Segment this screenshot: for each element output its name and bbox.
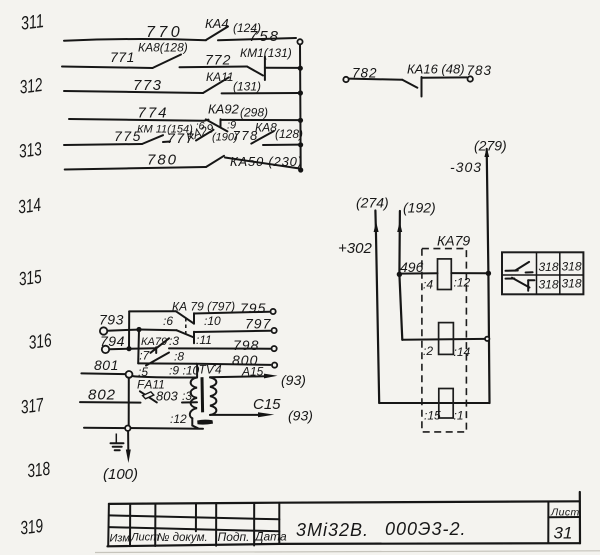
node 316 [27,330,53,354]
wire left vertical down [128,378,130,426]
junction row5 [298,142,303,147]
svg-text:(128): (128) [275,127,303,141]
ground [111,434,124,451]
svg-text::3: :3 [182,389,192,403]
svg-text:316: 316 [27,330,53,354]
svg-text:3Мi32В.: 3Мi32В. [296,520,369,540]
wire bus vertical [299,44,302,170]
wire 192 down [397,211,402,340]
wire bottom net [84,428,203,429]
svg-text:№ докум.: № докум. [157,532,208,544]
contact KA79 :6/:10 [129,311,221,328]
wire 758 [218,28,296,45]
wire 771 [62,49,153,68]
svg-text:А15: А15 [241,365,264,379]
wire 777 [163,130,195,146]
wire 801 [81,357,125,374]
contact KA79 :7/:8 [129,338,184,363]
ink blob near :12 [197,420,213,425]
wire A15 [210,365,306,389]
wire 770 [64,24,206,41]
wire 772 [180,52,248,68]
svg-text::14: :14 [454,345,471,359]
svg-text:773: 773 [133,77,163,94]
wire 773 [64,77,203,94]
transformer primary winding [190,378,197,419]
svg-text:313: 313 [18,139,44,163]
junction -303 top coil [486,271,491,276]
wire 795 [194,300,270,316]
contact KA50 [206,154,303,169]
transformer secondary winding [210,377,216,415]
svg-text:(93): (93) [281,372,306,388]
svg-text:311: 311 [20,11,45,35]
contact KA92 [206,102,299,132]
svg-text::10: :10 [204,314,221,328]
svg-text:319: 319 [19,516,45,540]
wire coil1 to -303 [451,272,486,274]
svg-text:315: 315 [17,267,43,291]
svg-text:(93): (93) [288,408,313,424]
wire C15 [210,396,313,424]
table NO contact symbol [506,262,533,273]
contact KA16 [402,62,464,97]
svg-text:Изм.: Изм. [110,533,133,545]
node 313 [18,139,44,163]
wire 782 [349,79,403,80]
contact KA11 [203,70,261,94]
node 797 terminal [272,328,277,333]
svg-text::15: :15 [424,409,441,423]
wire coil3 row [379,402,489,404]
wire 800 [197,352,271,368]
wire vertical 794 feed [128,311,130,348]
wire 775 [64,128,142,145]
svg-text:000Э3-2.: 000Э3-2. [385,519,467,539]
svg-text:(192): (192) [403,200,436,216]
node 798 terminal [272,346,277,351]
junction 794 [126,346,131,351]
svg-text:КА 79 (797): КА 79 (797) [172,300,235,314]
svg-text::8: :8 [174,350,184,364]
wire +302 [338,211,379,404]
node 312 [18,75,44,99]
svg-text:496: 496 [400,259,424,275]
junction 793 [136,327,141,332]
svg-text:КА79: КА79 [437,233,470,249]
svg-text:КА8(128): КА8(128) [138,41,188,55]
title block labels [110,530,287,545]
wire coil2 row [402,338,485,341]
transformer core [201,377,205,412]
svg-text::4: :4 [423,278,433,292]
table values 318 [539,260,582,292]
wire 801 to primary [132,376,197,378]
wire 797 [194,316,272,333]
node 795 terminal [271,309,276,314]
contact KA79 :3/:11 [139,330,212,349]
junction row4 [298,118,303,123]
wire 774 [69,105,209,122]
svg-text::12: :12 [454,276,471,290]
wire 802 [80,387,141,404]
svg-text::11: :11 [196,333,212,347]
svg-text:318: 318 [539,278,559,292]
svg-text:801: 801 [94,357,119,373]
svg-text:(279): (279) [474,138,507,154]
svg-text:+302: +302 [338,240,372,257]
contact KA29 [184,120,238,145]
transformer primary top lead [196,365,198,377]
title block rows [109,515,279,531]
node 793 terminal [99,312,124,335]
wire 803 [156,389,197,404]
transformer primary bottom lead :12 [170,412,198,428]
contact table frame [502,252,583,294]
wire 798 [169,337,270,353]
svg-text:С15: С15 [253,396,281,413]
svg-text::7: :7 [139,349,150,363]
transformer TV4 label [199,363,222,377]
wire 794 [109,348,128,350]
node 800 terminal [272,363,277,368]
wire vertical 793 feed [137,330,140,364]
label KA79(797) [172,300,235,314]
svg-text:795: 795 [240,300,266,316]
coil KA79 winding 2 [423,323,471,359]
svg-text:ТѴ4: ТѴ4 [199,363,222,377]
svg-text:КА11: КА11 [206,70,234,84]
svg-text:318: 318 [539,260,559,274]
svg-text:КА92: КА92 [208,102,240,117]
svg-text:Лист: Лист [550,507,580,519]
svg-text:770: 770 [146,24,183,41]
svg-text:793: 793 [99,312,124,328]
wire 778 [233,128,259,143]
wire row5 to bus [263,144,299,146]
svg-text::9: :9 [169,364,179,378]
svg-text:314: 314 [17,195,42,219]
svg-text::3: :3 [169,334,179,348]
title block columns [130,503,254,546]
svg-text:771: 771 [110,49,135,65]
svg-text:31: 31 [554,524,573,543]
node 314 [17,195,42,219]
node (279) [474,138,507,154]
breaker FA11 [137,378,165,403]
svg-text::6: :6 [163,314,173,328]
wire page bottom edge [95,551,600,553]
svg-text:318: 318 [26,459,52,483]
node 801 junction [126,371,133,378]
node 794 terminal [100,333,125,353]
svg-text:318: 318 [562,260,582,274]
svg-text:КА16 (48): КА16 (48) [407,62,465,77]
contact KA4 [205,16,261,40]
node coil2 to -303 [485,337,489,341]
svg-text:312: 312 [18,75,44,99]
svg-text:КА4: КА4 [205,16,229,31]
svg-text:(131): (131) [233,80,261,94]
svg-text:Подп.: Подп. [218,530,250,544]
wire row6 to bus [225,158,300,169]
svg-text:(100): (100) [103,466,138,483]
svg-text:318: 318 [562,277,582,291]
relay KA79 dashed box [422,233,470,432]
wire -303 [450,148,490,404]
svg-text::12: :12 [170,412,187,426]
svg-text:317: 317 [20,395,46,419]
svg-text::6: :6 [196,121,206,133]
coil KA79 winding 3 [424,389,464,423]
svg-text:802: 802 [88,387,116,404]
svg-text::2: :2 [423,344,433,358]
svg-text:Дата: Дата [253,530,287,544]
node 318 [26,459,52,483]
junction 496 [397,272,402,277]
wire 793 [107,330,138,331]
node 319 [19,516,45,540]
svg-text:772: 772 [205,52,231,68]
node (192) [403,200,436,216]
junction row3 [298,90,303,95]
svg-text:КА8: КА8 [255,121,277,135]
junction row2 [298,66,303,71]
svg-text:780: 780 [147,152,178,169]
sheet box [548,492,580,543]
svg-text:Лист: Лист [130,532,159,544]
svg-text:797: 797 [245,316,272,332]
svg-text:-303: -303 [450,159,482,175]
contact KM11 [137,124,193,145]
linkage dashes [185,318,187,336]
node bottom junction [125,426,130,431]
title block frame [108,501,581,546]
wire 496 [399,259,437,275]
wire 780 [65,152,206,170]
contact KM1 [240,46,299,80]
svg-text:(298): (298) [240,106,268,120]
node 311 [20,11,45,35]
wire 783 [422,63,493,78]
coil KA79 winding 1 [423,259,471,292]
node 317 [20,395,46,419]
svg-text:798: 798 [233,337,259,353]
wire to sheet (100) [103,431,138,483]
contact KA79 :5/:9 [138,353,200,380]
svg-text::1: :1 [454,409,464,423]
svg-text:(274): (274) [356,195,389,211]
junction row6 [298,167,303,172]
svg-text:758: 758 [249,28,280,45]
contact KA8 row5 [251,121,303,144]
document number [296,519,467,540]
node 782 terminal [343,66,377,83]
node (274) [356,195,389,211]
node 315 [17,267,43,291]
node 783 terminal [468,76,473,81]
svg-text:774: 774 [138,105,169,122]
wire row3 to bus [222,92,299,94]
svg-text:КМ1(131): КМ1(131) [240,46,292,60]
svg-text:803: 803 [156,389,178,404]
contact KA8 row2 [138,41,188,69]
node 758 terminal [297,39,302,44]
table NC contact symbol [506,278,535,291]
